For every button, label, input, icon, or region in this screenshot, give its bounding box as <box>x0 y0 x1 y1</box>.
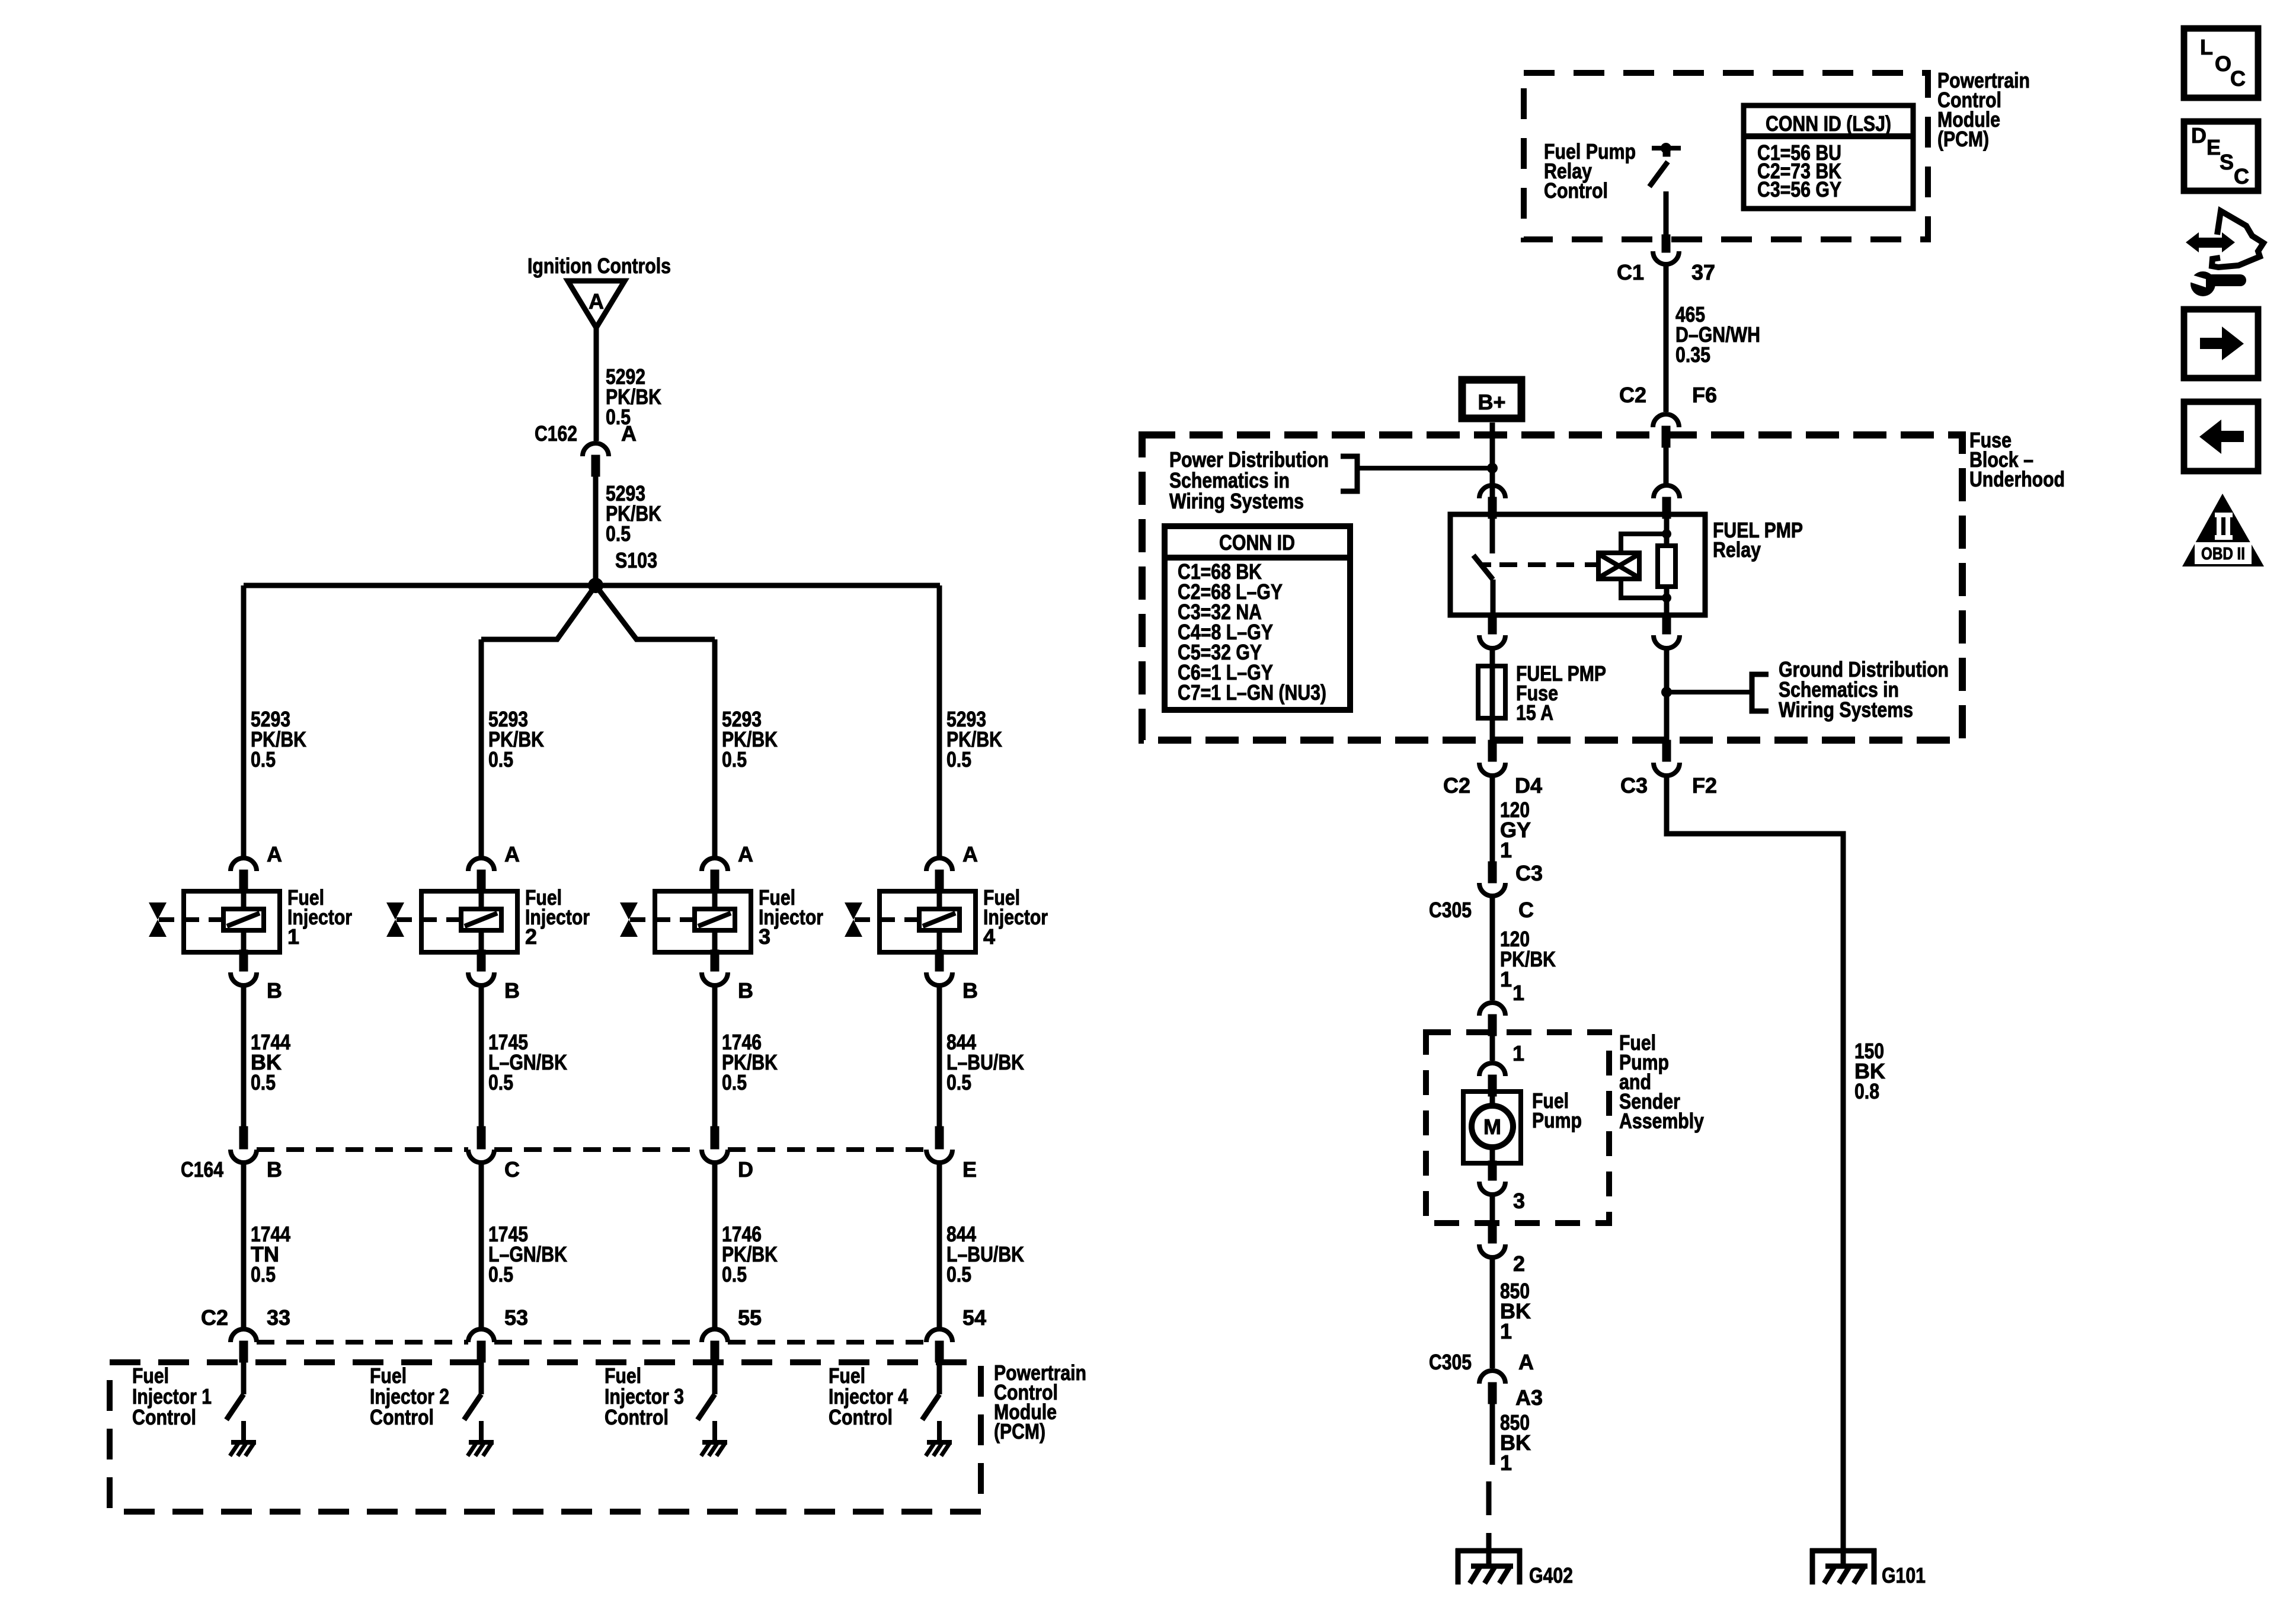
svg-text:B: B <box>962 978 978 1003</box>
svg-text:0.5: 0.5 <box>722 1070 747 1094</box>
fuel injector 1 <box>184 891 280 952</box>
fuel injector 1 driver switch in PCM <box>241 1362 247 1394</box>
ground inside PCM (injector 4 driver) <box>937 1421 942 1442</box>
connector pin 3 of fuel pump <box>1488 1161 1496 1180</box>
Powertrain Control Module (PCM) box, left <box>110 1362 981 1512</box>
svg-text:C: C <box>2230 66 2246 91</box>
svg-text:37: 37 <box>1691 260 1715 284</box>
svg-text:A: A <box>621 421 637 446</box>
svg-text:0.35: 0.35 <box>1675 343 1710 367</box>
svg-text:D: D <box>738 1157 753 1182</box>
svg-text:4: 4 <box>983 924 995 949</box>
svg-text:C164: C164 <box>181 1157 223 1182</box>
svg-text:E: E <box>2207 135 2221 159</box>
FUEL PMP Fuse 15 A <box>1490 666 1495 741</box>
wire 150 BK <box>1667 774 1843 1551</box>
svg-text:B+: B+ <box>1478 390 1505 414</box>
svg-text:0.5: 0.5 <box>488 1262 513 1286</box>
svg-text:33: 33 <box>267 1305 290 1330</box>
svg-text:A3: A3 <box>1515 1385 1543 1410</box>
svg-text:E: E <box>962 1157 977 1182</box>
svg-text:D4: D4 <box>1515 773 1542 798</box>
svg-text:0.5: 0.5 <box>606 521 631 546</box>
relay coil <box>1598 553 1639 579</box>
wire 5293 branch to fuel injector 2 <box>479 639 484 858</box>
svg-text:A: A <box>738 842 753 866</box>
connector C164 pin E <box>935 1126 944 1149</box>
wire to fuel pump <box>1490 1036 1495 1061</box>
wire from B+ into fuse block <box>1490 422 1495 497</box>
svg-text:A: A <box>962 842 978 866</box>
svg-text:Control: Control <box>132 1405 196 1429</box>
svg-text:Control: Control <box>605 1405 669 1429</box>
icon back arrow <box>2184 402 2258 471</box>
connector pin B of fuel injector 1 <box>239 950 248 971</box>
svg-text:(PCM): (PCM) <box>1937 127 1989 151</box>
Powertrain Control Module (PCM) box, top right <box>1524 73 1928 239</box>
connector pin B of fuel injector 3 <box>711 950 719 971</box>
svg-text:0.5: 0.5 <box>488 1070 513 1094</box>
Fuse Block - Underhood box <box>1142 435 1962 740</box>
svg-text:Control: Control <box>370 1405 434 1429</box>
svg-text:(PCM): (PCM) <box>994 1419 1045 1443</box>
svg-text:0.5: 0.5 <box>251 1070 276 1094</box>
svg-text:G101: G101 <box>1882 1563 1926 1587</box>
wire 120 PK/BK <box>1490 895 1495 1000</box>
relay coil junction bottom <box>1662 593 1671 603</box>
svg-text:1: 1 <box>1500 838 1512 862</box>
svg-text:CONN ID (LSJ): CONN ID (LSJ) <box>1766 111 1891 136</box>
ground inside PCM (injector 2 driver) <box>479 1421 484 1442</box>
svg-text:0.5: 0.5 <box>946 1262 971 1286</box>
svg-text:1: 1 <box>287 924 299 949</box>
ground inside PCM (injector 3 driver) <box>712 1421 717 1442</box>
FUEL PMP Relay <box>1450 514 1705 615</box>
wire from relay to ground distribution <box>1664 647 1670 741</box>
fuel injector 4 <box>880 891 976 952</box>
wire from injector 2 pin B to C164 <box>479 984 484 1128</box>
svg-text:Wiring Systems: Wiring Systems <box>1779 697 1913 722</box>
connector C2 pin D4 <box>1488 740 1496 761</box>
svg-text:S103: S103 <box>615 548 657 572</box>
svg-text:B: B <box>267 1157 282 1182</box>
svg-text:C2: C2 <box>1443 773 1470 798</box>
svg-text:F6: F6 <box>1692 383 1717 407</box>
svg-text:0.5: 0.5 <box>946 747 971 772</box>
wire from injector 3 pin B to C164 <box>712 984 718 1128</box>
svg-text:Underhood: Underhood <box>1969 467 2065 491</box>
svg-text:1: 1 <box>1500 1451 1512 1475</box>
svg-text:D: D <box>2191 123 2207 148</box>
wire from C164 to PCM pin 54 <box>937 1160 942 1328</box>
svg-text:2: 2 <box>1513 1251 1525 1276</box>
svg-text:Ignition Controls: Ignition Controls <box>527 254 671 278</box>
svg-text:C305: C305 <box>1429 1350 1472 1374</box>
icon DESC <box>2184 121 2258 191</box>
connector pin B of fuel injector 2 <box>477 950 485 971</box>
svg-text:B: B <box>267 978 282 1003</box>
dashed harness line of C2 <box>257 1340 468 1345</box>
wire from injector 4 pin B to C164 <box>937 984 942 1128</box>
svg-text:C: C <box>1518 898 1534 922</box>
wire from relay to fuse <box>1490 647 1495 666</box>
relay switch <box>1490 518 1495 553</box>
connector below relay, right <box>1662 613 1671 634</box>
connector into relay, right <box>1654 485 1680 498</box>
svg-text:C3=56 GY: C3=56 GY <box>1757 177 1841 201</box>
fuel pump relay driver switch in PCM <box>1652 146 1681 151</box>
svg-text:0.5: 0.5 <box>722 747 747 772</box>
svg-text:A: A <box>589 289 604 313</box>
wire from C164 to PCM pin 33 <box>241 1160 247 1328</box>
svg-text:C: C <box>2234 164 2249 188</box>
svg-text:F2: F2 <box>1692 773 1717 798</box>
dashed wire segment to G402 <box>1486 1481 1492 1515</box>
wire from pump to assembly boundary <box>1490 1193 1495 1223</box>
svg-text:2: 2 <box>525 924 537 949</box>
svg-text:Assembly: Assembly <box>1619 1109 1704 1133</box>
svg-text:0.8: 0.8 <box>1854 1079 1879 1103</box>
connector pin B of fuel injector 4 <box>935 950 944 971</box>
svg-text:0.5: 0.5 <box>251 747 276 772</box>
svg-text:0.5: 0.5 <box>488 747 513 772</box>
svg-text:3: 3 <box>1513 1189 1525 1213</box>
icon diagnostic wrench <box>2186 232 2199 252</box>
svg-text:A: A <box>267 842 282 866</box>
relay coil junction top <box>1662 529 1671 539</box>
B+ terminal <box>1462 380 1521 418</box>
wire bus from S103 to injector columns <box>244 583 940 588</box>
wire 5293 branch to fuel injector 1 <box>241 585 247 858</box>
svg-text:54: 54 <box>962 1305 986 1330</box>
svg-text:CONN ID: CONN ID <box>1219 530 1295 555</box>
wire 120 GY <box>1490 774 1495 863</box>
fuel injector 4 driver switch in PCM <box>937 1362 942 1394</box>
svg-text:C162: C162 <box>535 421 577 446</box>
svg-text:Relay: Relay <box>1713 537 1761 562</box>
wire from C164 to PCM pin 53 <box>479 1160 484 1328</box>
fuel injector 2 driver switch in PCM <box>479 1362 484 1394</box>
connector below relay, left <box>1488 613 1496 634</box>
connector pin 2 at assembly boundary <box>1488 1222 1496 1243</box>
icon OBD II <box>2182 494 2264 566</box>
connector C3 pin F2 <box>1662 740 1671 761</box>
svg-text:C2: C2 <box>1619 383 1646 407</box>
wire 5293 from C162 to S103 <box>593 476 599 585</box>
icon LOC <box>2184 28 2258 98</box>
fuel injector 2 <box>421 891 517 952</box>
junction to power distribution <box>1487 463 1498 473</box>
fuel injector 3 driver switch in PCM <box>712 1362 718 1394</box>
dashed harness line of C164 <box>257 1147 468 1152</box>
ground inside PCM (injector 1 driver) <box>241 1421 246 1442</box>
svg-text:A: A <box>1518 1350 1534 1374</box>
off-page connector triangle A (Ignition Controls) <box>568 281 625 328</box>
svg-text:C1: C1 <box>1617 260 1644 284</box>
connector into relay, left <box>1479 485 1505 498</box>
connector C164 pin D <box>711 1126 719 1149</box>
connector C164 pin B <box>239 1126 248 1149</box>
connector C1 pin 37 <box>1662 235 1670 252</box>
wire 5293 branch to fuel injector 4 <box>937 585 942 858</box>
wire from C164 to PCM pin 55 <box>712 1160 718 1328</box>
svg-text:1: 1 <box>1500 967 1512 991</box>
svg-text:Control: Control <box>829 1405 893 1429</box>
svg-text:1: 1 <box>1512 1041 1524 1065</box>
fuel injector 3 <box>655 891 751 952</box>
svg-text:55: 55 <box>738 1305 762 1330</box>
svg-text:B: B <box>504 978 520 1003</box>
svg-text:S: S <box>2220 150 2234 174</box>
icon forward arrow <box>2184 309 2258 378</box>
wire from C2 F6 into fuse block <box>1664 446 1669 484</box>
svg-text:Wiring Systems: Wiring Systems <box>1169 489 1304 513</box>
svg-text:O: O <box>2215 52 2231 76</box>
svg-text:A: A <box>504 842 520 866</box>
connector C3 <box>1488 862 1496 883</box>
wire 465 from PCM C1 to fuse block <box>1664 263 1669 412</box>
svg-text:0.5: 0.5 <box>251 1262 276 1286</box>
table CONN ID (fuse block) <box>1165 526 1350 710</box>
svg-text:L: L <box>2200 35 2213 59</box>
svg-text:1: 1 <box>1512 981 1524 1005</box>
svg-text:B: B <box>738 978 753 1003</box>
svg-text:C7=1 L–GN (NU3): C7=1 L–GN (NU3) <box>1178 680 1326 705</box>
svg-text:C3: C3 <box>1515 861 1543 885</box>
junction to ground distribution <box>1661 687 1672 697</box>
svg-text:M: M <box>1483 1115 1501 1139</box>
svg-text:Pump: Pump <box>1532 1108 1582 1132</box>
table CONN ID (LSJ) <box>1744 105 1913 209</box>
wire 850 BK lower <box>1490 1404 1495 1465</box>
svg-text:C: C <box>504 1157 520 1182</box>
connector C164 pin C <box>477 1126 485 1149</box>
svg-text:3: 3 <box>759 924 770 949</box>
svg-text:G402: G402 <box>1529 1563 1573 1587</box>
ground G402 <box>1456 1548 1522 1554</box>
ground G101 <box>1810 1548 1876 1554</box>
svg-text:0.5: 0.5 <box>722 1262 747 1286</box>
svg-text:1: 1 <box>1500 1319 1512 1343</box>
svg-text:C3: C3 <box>1620 773 1648 798</box>
svg-text:OBD II: OBD II <box>2201 545 2245 564</box>
svg-text:Control: Control <box>1544 178 1608 203</box>
wire from injector 1 pin B to C164 <box>241 984 247 1128</box>
wire 5293 branch to fuel injector 3 <box>712 639 718 858</box>
svg-text:0.5: 0.5 <box>946 1070 971 1094</box>
svg-text:C2: C2 <box>201 1305 228 1330</box>
wire 5292 from triangle to C162 <box>594 327 599 441</box>
svg-text:C305: C305 <box>1429 898 1472 922</box>
relay mechanical link (dashed) <box>1499 562 1597 567</box>
wire 850 BK upper <box>1490 1256 1495 1368</box>
relay internal resistor <box>1664 518 1670 615</box>
svg-text:15 A: 15 A <box>1516 700 1553 725</box>
svg-text:53: 53 <box>504 1305 528 1330</box>
fuel pump motor <box>1463 1092 1521 1163</box>
Fuel Pump and Sender Assembly box <box>1426 1032 1609 1223</box>
